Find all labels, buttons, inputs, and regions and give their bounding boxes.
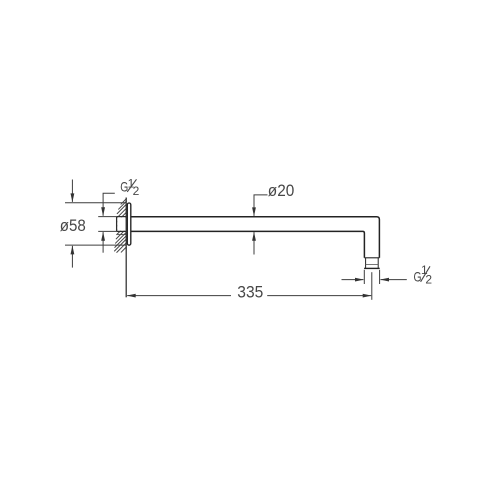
thread bottom extension line: [98, 230, 116, 232]
dia58 dimension line upper: [71, 180, 73, 202]
arrow outlet left (right): [355, 278, 364, 282]
line under stub: [117, 234, 126, 236]
wall hatching: [115, 199, 127, 253]
pipe end extension line right: [379, 270, 381, 284]
arrowheads: [71, 193, 390, 297]
arrow 335 right (right): [363, 294, 372, 298]
label G1/2 right: [414, 263, 433, 287]
arrow outlet right (left): [380, 278, 389, 282]
pipe bottom/inner edge: [131, 231, 364, 257]
dia58 bottom extension line: [65, 244, 127, 246]
thread stub behind wall (white over hatching): [117, 217, 126, 230]
svg-text:ø20: ø20: [268, 181, 295, 200]
thread section lines: [365, 258, 367, 269]
svg-text:2: 2: [133, 184, 140, 198]
right G1/2 left arrow line: [342, 279, 364, 281]
arrow dia20 bottom (up): [252, 232, 256, 241]
dia58 dimension line lower: [71, 246, 73, 268]
thread top extension line: [98, 216, 116, 218]
G1/2 left leader: [103, 193, 115, 216]
dia58 top extension line: [65, 202, 127, 204]
svg-text:335: 335: [237, 283, 263, 302]
thread lower dimension line: [102, 232, 104, 253]
arrow dia20 top (down): [252, 207, 256, 216]
label G1/2 left: [120, 177, 139, 198]
flange: [127, 203, 131, 245]
arrow G1/2 left (down): [101, 207, 105, 216]
svg-text:2: 2: [425, 273, 432, 287]
pipe end extension line left: [363, 270, 365, 284]
dia20 lower dimension line: [253, 232, 255, 254]
wall line: [125, 198, 127, 298]
335 dimension line left segment: [127, 295, 231, 297]
dimension graphics: [65, 180, 407, 300]
pipe top/outer edge: [131, 217, 379, 258]
dia20 leader: [254, 195, 268, 216]
335 dimension line right segment: [267, 295, 371, 297]
arrow dia58 top (down): [71, 193, 75, 202]
shower arm pipe outline: [131, 217, 380, 269]
arrow dia58 bottom (up): [71, 246, 75, 255]
pipe end face: [364, 267, 380, 269]
arrow thread bottom (up): [101, 232, 105, 241]
outlet centre extension line: [371, 272, 373, 300]
thread collar tick: [364, 257, 379, 259]
svg-text:ø58: ø58: [60, 216, 86, 235]
arrow 335 left (left): [127, 294, 136, 298]
right G1/2 right arrow line: [381, 279, 407, 281]
